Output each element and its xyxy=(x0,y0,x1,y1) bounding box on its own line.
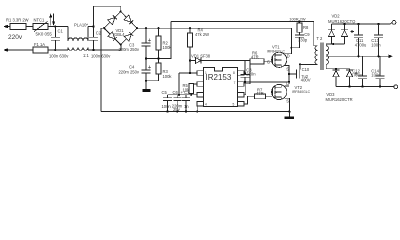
svg-text:100R 2W: 100R 2W xyxy=(289,16,306,21)
wire bridge minus (W corner) down to bottom rail xyxy=(101,28,104,111)
svg-text:C6: C6 xyxy=(173,90,179,95)
resistor R6 47R xyxy=(250,51,264,64)
arrow down (line marker) xyxy=(52,14,55,26)
diode VD3b xyxy=(346,69,353,87)
diode VD1 upper-left xyxy=(108,16,117,25)
capacitor C10 7u2 400V xyxy=(289,64,311,82)
svg-text:VD3: VD3 xyxy=(326,92,335,97)
svg-text:NTC1: NTC1 xyxy=(34,17,46,22)
node R4/Vcc pin1 xyxy=(189,72,191,74)
svg-text:G: G xyxy=(267,59,270,64)
wire secondary bottom lead xyxy=(326,64,350,68)
wire VT2 drain stub xyxy=(285,85,289,87)
wire NTC1 to C1 node xyxy=(48,26,68,28)
svg-text:100n 630v: 100n 630v xyxy=(49,54,69,59)
capacitor C7 1n xyxy=(181,90,191,111)
node 0V C11 xyxy=(357,55,359,57)
node secondary top / diode xyxy=(332,43,334,45)
pin 4 box xyxy=(197,102,204,107)
svg-text:47R: 47R xyxy=(256,91,264,96)
svg-text:IRF840GLC: IRF840GLC xyxy=(267,49,286,53)
svg-text:5K0 055: 5K0 055 xyxy=(36,32,53,37)
wire +rail y28 xyxy=(137,28,291,54)
node bridge S corner xyxy=(120,44,122,46)
wire -out rail y86.6 xyxy=(336,86,394,88)
resistor R1 xyxy=(6,17,29,29)
svg-text:D: D xyxy=(286,81,289,86)
svg-text:4700u: 4700u xyxy=(355,42,367,47)
label VD1 GBL4 xyxy=(114,28,125,37)
node +rail R2 xyxy=(157,27,159,29)
svg-text:400V: 400V xyxy=(301,78,311,83)
svg-text:R8: R8 xyxy=(303,25,309,30)
capacitor C11 4700u xyxy=(350,24,367,56)
node -rail C14 xyxy=(379,86,381,88)
node: bottom rail / C1 junction xyxy=(54,49,56,51)
node +rail C3 xyxy=(145,27,147,29)
diode VD3a xyxy=(333,69,340,87)
svg-text:1: 1 xyxy=(205,71,207,75)
svg-text:C1: C1 xyxy=(58,29,64,34)
wire RT/CT line y94.8 xyxy=(168,94,198,96)
node: C2 bottom xyxy=(92,49,94,51)
node R4/bootstrap xyxy=(189,59,191,61)
pin 7 box xyxy=(238,82,245,87)
resistor R4 47k 2W xyxy=(188,28,210,73)
node snubber to drain xyxy=(290,47,292,49)
node midline R2/R3 xyxy=(157,58,159,60)
node VS/midpoint xyxy=(288,81,290,83)
node midline C3/C4 xyxy=(145,58,147,60)
svg-text:IR2153: IR2153 xyxy=(206,73,232,82)
ground bar (C4) xyxy=(142,89,150,92)
svg-text:F1 1A: F1 1A xyxy=(34,42,45,47)
terminal 0V output (arrow) xyxy=(381,55,393,59)
wire pin7 riser to gate line xyxy=(244,64,250,84)
svg-text:S: S xyxy=(286,99,289,104)
node bridge W corner xyxy=(103,27,105,29)
svg-text:5: 5 xyxy=(233,102,235,106)
wire VT1 source to midpoint xyxy=(285,66,289,85)
diode VD SF38 (bootstrap) xyxy=(190,54,250,64)
svg-text:220n: 220n xyxy=(246,71,256,76)
node R5 bottom xyxy=(190,94,192,96)
node source/bottom rail xyxy=(288,111,290,113)
resistor R5 10k xyxy=(183,83,198,95)
node R8 top rail xyxy=(298,20,300,22)
wire to bridge AC top xyxy=(94,6,121,26)
capacitor C6 220m 25v xyxy=(172,90,183,112)
node 0V C13 xyxy=(377,55,379,57)
resistor R3 100k xyxy=(146,59,172,81)
diode VD2a xyxy=(328,24,335,44)
svg-text:220v: 220v xyxy=(8,34,23,41)
pin 5 box xyxy=(238,102,245,107)
choke T1 top winding xyxy=(68,27,88,41)
wire to bridge AC bottom xyxy=(120,45,122,50)
svg-text:IRF840GLC: IRF840GLC xyxy=(292,90,311,94)
diode VD1 lower-right xyxy=(124,32,133,41)
node midpoint/C10 xyxy=(288,73,290,75)
input terminal arrow N (neutral) xyxy=(3,48,33,52)
node: C2 top xyxy=(92,25,94,27)
pin 1 box xyxy=(197,71,204,76)
wire VS line y81.9 xyxy=(245,81,289,83)
svg-text:1:1: 1:1 xyxy=(83,53,89,58)
arrow up (line marker) xyxy=(49,13,52,25)
diode VD1 lower-left xyxy=(108,32,117,41)
diode VD1 upper-right xyxy=(124,15,133,24)
capacitor C12 4700u xyxy=(351,56,367,86)
transformer T2 primary xyxy=(314,22,323,65)
capacitor C14 100n xyxy=(371,56,384,86)
node +rail C11 xyxy=(357,23,359,25)
svg-text:MUR1620CTQ: MUR1620CTQ xyxy=(328,19,356,24)
wire VT1 drain stub xyxy=(285,53,292,55)
wire pin5 staircase to R7 xyxy=(244,96,255,104)
op-amp U1 IR2153 body xyxy=(204,68,238,107)
node -rail VD3b xyxy=(348,86,350,88)
wire choke to C2 (top) xyxy=(88,26,94,28)
svg-text:GBL4: GBL4 xyxy=(114,32,125,37)
svg-text:T 2: T 2 xyxy=(316,36,323,41)
node C6 ground xyxy=(176,111,178,113)
svg-text:220m 250v: 220m 250v xyxy=(119,47,140,52)
diode VD2b xyxy=(341,24,348,44)
resistor R8 100R 2W xyxy=(289,16,309,32)
svg-text:C5: C5 xyxy=(162,90,168,95)
label VD3 MUR1620CTR xyxy=(326,92,353,102)
wire F1 to C1 bottom xyxy=(48,49,68,51)
wire pin8 to C8 xyxy=(244,72,245,74)
node bridge E corner xyxy=(136,27,138,29)
node C7 ground xyxy=(185,111,187,113)
choke T1 bottom winding xyxy=(68,47,88,50)
node C8/pin8 xyxy=(244,72,246,74)
terminal + output (circle) xyxy=(392,21,396,25)
wire C10 to transformer primary bottom xyxy=(300,63,314,65)
svg-text:+ C7: + C7 xyxy=(181,90,191,95)
wire bottom rail xyxy=(101,111,289,113)
capacitor C9 330p xyxy=(291,32,310,48)
node: top rail / C1 junction xyxy=(54,25,56,27)
wire +out rail y24 xyxy=(332,23,393,25)
wire top line y21.5 to transformer xyxy=(171,21,314,23)
node +rail C13 xyxy=(377,23,379,25)
pin 8 box xyxy=(238,71,245,76)
wire choke to bridge riser (bottom) xyxy=(88,49,121,51)
label VD2 MUR1620CTQ xyxy=(328,14,356,24)
svg-text:VD1 SF38: VD1 SF38 xyxy=(191,54,211,59)
fuse F1 1A xyxy=(33,42,48,53)
svg-text:100n: 100n xyxy=(162,104,172,109)
transformer T2 core xyxy=(321,43,323,71)
node +rail VD2b xyxy=(343,23,345,25)
wire pin4 to bottom rail xyxy=(196,104,198,112)
wire Vcc riser x179 xyxy=(178,73,180,95)
node -rail C12 xyxy=(361,86,363,88)
svg-text:7: 7 xyxy=(234,81,236,85)
capacitor C2 100n 630v xyxy=(89,27,102,51)
node secondary bottom / diode xyxy=(335,68,337,70)
wire R7 to VT2 gate xyxy=(266,95,272,97)
node Vcc riser top xyxy=(178,94,180,96)
resistor R7 47R xyxy=(255,88,266,99)
node C10 riser xyxy=(299,63,301,65)
svg-text:47R: 47R xyxy=(251,54,259,59)
node pin4 ground xyxy=(196,111,198,113)
svg-text:8: 8 xyxy=(233,71,235,75)
capacitor C3 220m 250v xyxy=(119,28,151,58)
svg-text:100n: 100n xyxy=(371,42,381,47)
wire pin6 to VS riser xyxy=(244,82,246,95)
pin 3 box xyxy=(197,93,204,98)
wire secondary top lead xyxy=(326,44,344,46)
wire Vcc line pin1 xyxy=(179,72,197,74)
capacitor C4 220m 250v xyxy=(119,59,151,89)
svg-text:220m 250v: 220m 250v xyxy=(119,70,140,75)
node R3 to C4 riser xyxy=(145,80,147,82)
bridge rectifier VD1 diamond xyxy=(104,12,137,45)
node bridge N corner xyxy=(120,10,122,12)
capacitor C1 100n 630v xyxy=(51,27,63,51)
capacitor C8 220n (bootstrap) xyxy=(241,61,257,82)
svg-text:R1 3.3R 2W: R1 3.3R 2W xyxy=(6,17,29,22)
transistor VT1 IRF840 xyxy=(267,45,287,68)
svg-text:100n: 100n xyxy=(371,72,381,77)
resistor R2 100k xyxy=(156,28,172,58)
svg-text:330p: 330p xyxy=(298,37,308,42)
transformer T2 secondary xyxy=(326,46,328,65)
ground symbol (main) xyxy=(285,112,295,120)
wire secondary centre tap / 0V rail xyxy=(326,55,381,57)
capacitor C13 100n xyxy=(371,24,383,56)
svg-text:100k: 100k xyxy=(163,74,173,79)
svg-text:VD2: VD2 xyxy=(332,14,341,19)
svg-text:PLA10*: PLA10* xyxy=(74,22,88,27)
terminal - output (circle) xyxy=(394,85,398,89)
svg-text:C10: C10 xyxy=(302,67,310,72)
wire midpoint line y58.6 to riser x170.9 xyxy=(146,22,171,59)
node C5 ground xyxy=(166,111,168,113)
svg-text:1n: 1n xyxy=(184,104,189,109)
svg-text:4: 4 xyxy=(205,102,207,106)
svg-text:47k 2W: 47k 2W xyxy=(195,32,209,37)
input terminal arrow L (line) xyxy=(3,25,10,29)
svg-text:MUR1620CTR: MUR1620CTR xyxy=(326,97,353,102)
pin 6 box xyxy=(238,93,245,98)
wire VT2 source to ground xyxy=(285,98,290,111)
pin 2 box xyxy=(197,82,204,87)
capacitor C5 100n xyxy=(162,90,173,111)
wire R1 to NTC1 xyxy=(26,26,33,28)
thermistor NTC1 xyxy=(33,17,52,36)
node VS/C8 xyxy=(244,81,246,83)
node +rail R4 xyxy=(189,27,191,29)
wire R6 to VT1 gate xyxy=(264,60,272,62)
transistor VT2 IRF840 xyxy=(272,84,311,99)
